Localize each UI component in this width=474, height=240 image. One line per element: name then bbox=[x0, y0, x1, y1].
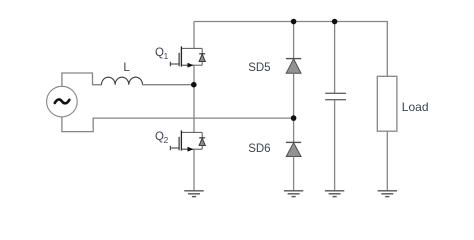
node top-1 junction bbox=[291, 19, 297, 25]
node B junction bbox=[291, 115, 297, 121]
svg-text:Load: Load bbox=[402, 100, 429, 114]
wire SD5 to node B bbox=[293, 73, 295, 118]
AC source V1 bbox=[47, 86, 78, 117]
ground below capacitor bbox=[325, 191, 344, 197]
svg-text:SD5: SD5 bbox=[248, 62, 270, 74]
svg-text:1: 1 bbox=[164, 51, 169, 61]
wire Q1 drain bbox=[193, 22, 195, 49]
wire top rail to SD5 bbox=[293, 22, 295, 59]
ground below SD6 bbox=[284, 191, 303, 197]
wire Q1 source to node A bbox=[193, 65, 195, 85]
wire top rail to capacitor bbox=[334, 22, 336, 94]
svg-text:SD6: SD6 bbox=[248, 143, 270, 155]
ground below load bbox=[378, 191, 397, 197]
wire node B to SD6 bbox=[293, 118, 295, 142]
node top-2 junction bbox=[332, 19, 338, 25]
inductor L bbox=[102, 62, 143, 85]
wire SD6 to ground bbox=[293, 157, 295, 191]
resistor Load bbox=[377, 76, 428, 131]
diode SD6 bbox=[248, 142, 301, 156]
transistor Q1 bbox=[155, 46, 205, 67]
ground below Q2 bbox=[184, 191, 203, 197]
wire capacitor to ground bbox=[334, 100, 336, 191]
wire AC bottom to node B bbox=[62, 117, 294, 132]
wire AC top to inductor bbox=[62, 73, 102, 86]
node A junction bbox=[191, 82, 197, 88]
capacitor C1 bbox=[325, 93, 346, 99]
wire load to ground bbox=[386, 131, 388, 191]
transistor Q2 bbox=[155, 130, 205, 151]
wire Q2 drain bbox=[193, 85, 195, 133]
wire inductor to node A bbox=[143, 84, 194, 86]
wire Q2 source to ground bbox=[193, 149, 195, 191]
svg-text:2: 2 bbox=[164, 135, 169, 145]
svg-text:L: L bbox=[123, 62, 130, 74]
wire top rail bbox=[194, 22, 387, 77]
diode SD5 bbox=[248, 59, 301, 74]
